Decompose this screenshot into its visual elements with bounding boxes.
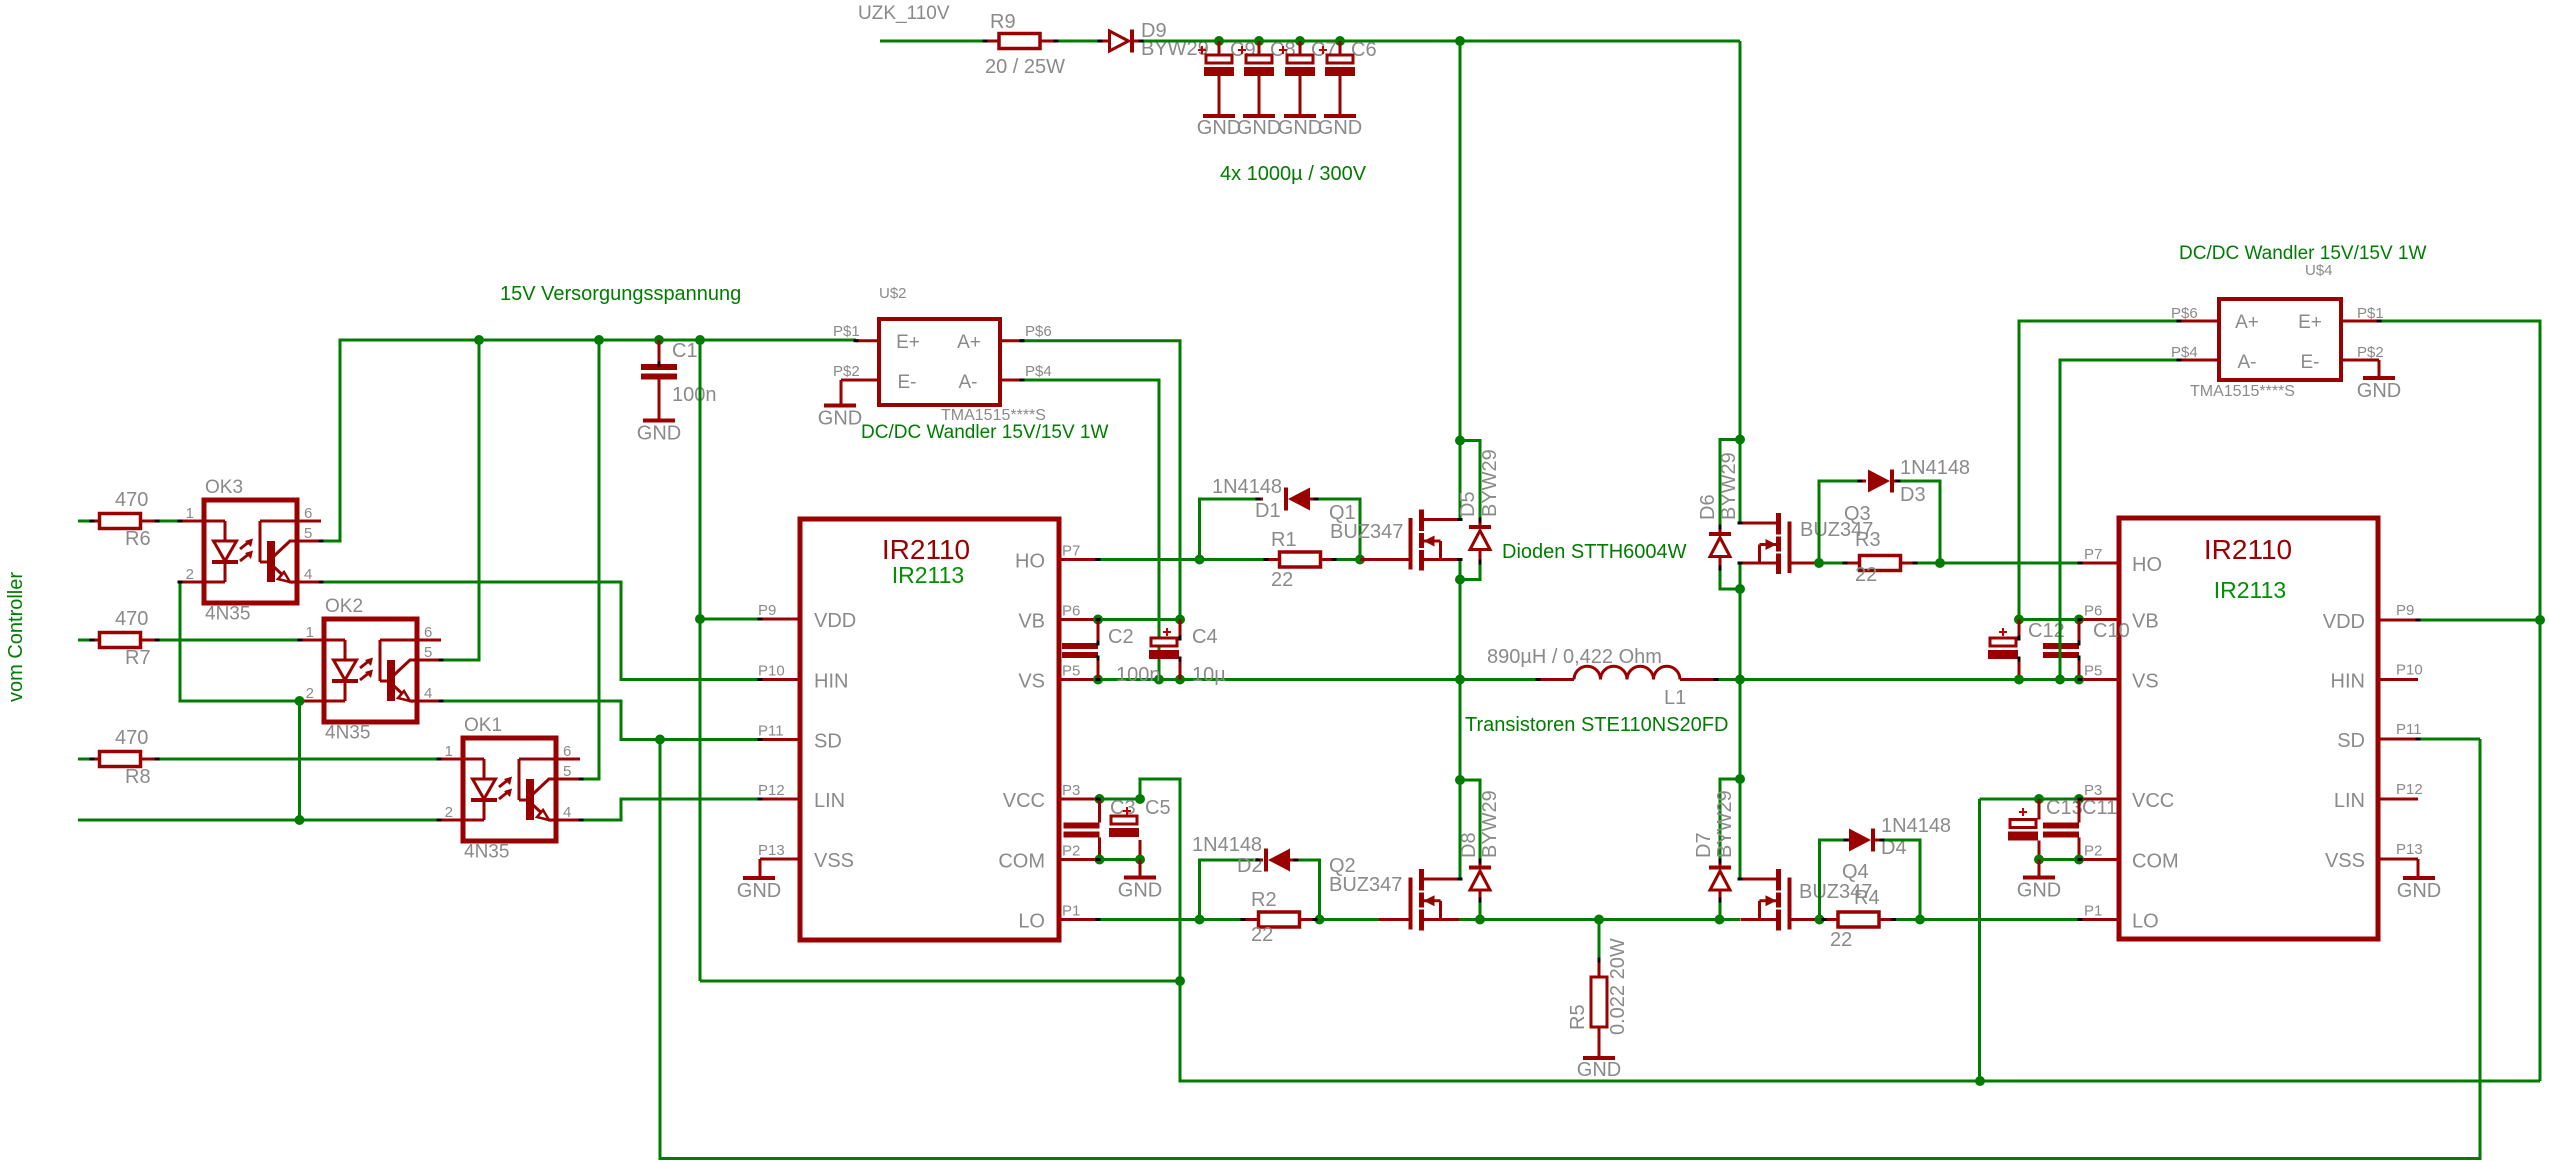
wire top rail into left leg — [1459, 41, 1462, 520]
wire D2 to gate node — [1296, 860, 1320, 920]
svg-text:C10: C10 — [2093, 620, 2130, 642]
wire L1 to right leg — [1716, 678, 2080, 681]
wire D3 bypass — [1819, 481, 1860, 563]
svg-text:P11: P11 — [2396, 721, 2422, 738]
svg-text:2: 2 — [186, 566, 194, 583]
pin VDD stub (left IC) — [760, 618, 800, 621]
svg-text:22: 22 — [1271, 569, 1293, 591]
svg-text:vom Controller: vom Controller — [5, 572, 27, 702]
junction cap C9 top — [1214, 36, 1224, 46]
pin HO stub (right IC) — [2080, 562, 2119, 565]
pin LO stub (right IC) — [2080, 918, 2119, 921]
junction cap C7 top — [1295, 36, 1305, 46]
svg-text:P$1: P$1 — [833, 323, 860, 340]
pin connection ticks — [758, 618, 763, 621]
junction source rail / R5 — [1594, 915, 1604, 925]
diode D7 BYW29 — [1719, 861, 1722, 868]
wire HO to R1 — [1098, 558, 1266, 561]
svg-text:D1: D1 — [1255, 500, 1281, 522]
svg-text:P5: P5 — [1062, 663, 1080, 680]
wire R6 to OK3 pin1 — [157, 520, 180, 523]
DC/DC converter U$4 box — [2219, 299, 2341, 380]
junction COM / C13 — [2034, 855, 2044, 865]
junction VCC / C13 — [2034, 794, 2044, 804]
pin VSS stub (left IC) — [760, 858, 800, 861]
transistor Q4 BUZ347 — [1788, 878, 1792, 930]
wire VDD to 15V drop — [700, 618, 760, 621]
wire U$4 P$4 to right VS — [2060, 360, 2179, 680]
capacitor C8 (1000u/300V) — [1258, 41, 1261, 55]
wire R7 to OK2 pin1 — [157, 639, 300, 642]
svg-text:BYW29: BYW29 — [1718, 452, 1740, 520]
ground GND of C1 — [643, 419, 675, 423]
svg-text:D7: D7 — [1693, 832, 1715, 858]
svg-text:P7: P7 — [1062, 543, 1080, 560]
junction right leg / D7 top — [1735, 774, 1745, 784]
pin VCC stub (left IC) — [1059, 798, 1098, 801]
svg-text:D3: D3 — [1900, 484, 1926, 506]
resistor R4 22 — [1820, 918, 1825, 921]
wire gate lead Q2 — [1379, 918, 1410, 921]
svg-text:VB: VB — [1018, 611, 1045, 633]
junction COM / C5 — [1135, 855, 1145, 865]
svg-text:22: 22 — [1251, 924, 1273, 946]
diode D3 1N4148 — [1860, 480, 1866, 483]
svg-text:6: 6 — [304, 505, 312, 522]
svg-text:DC/DC Wandler 15V/15V 1W: DC/DC Wandler 15V/15V 1W — [861, 422, 1109, 443]
svg-text:E-: E- — [2301, 352, 2320, 373]
junction gate node Q4 — [1815, 915, 1825, 925]
ground GND of C7 — [1284, 114, 1316, 118]
junction OK2 pin2 — [295, 696, 305, 706]
pin P$2 stub and ground — [841, 379, 879, 382]
svg-text:R1: R1 — [1271, 529, 1297, 551]
capacitor C1 100n — [658, 340, 661, 364]
svg-text:1: 1 — [186, 505, 194, 522]
capacitor C7 (1000u/300V) — [1299, 41, 1302, 55]
svg-text:P12: P12 — [2396, 781, 2423, 798]
svg-text:1N4148: 1N4148 — [1212, 476, 1282, 498]
pin P$4 stub — [1000, 379, 1022, 382]
wire D8 top link — [1460, 780, 1480, 861]
resistor R2 22 — [1243, 918, 1257, 921]
svg-text:HIN: HIN — [2331, 671, 2365, 693]
diode D9 — [1100, 40, 1108, 43]
svg-text:GND: GND — [1237, 117, 1281, 139]
capacitor C3 100n — [1098, 799, 1101, 823]
wire controller return line — [78, 819, 439, 822]
capacitor C2 100n — [1097, 620, 1100, 644]
svg-text:P2: P2 — [1062, 843, 1080, 860]
svg-text:C2: C2 — [1108, 626, 1134, 648]
junction OK1 pin2 — [295, 815, 305, 825]
junction 15V rail / VDD drop — [695, 335, 705, 345]
svg-text:IR2113: IR2113 — [2214, 577, 2286, 603]
svg-text:Q4: Q4 — [1842, 861, 1869, 883]
junction VB / C10 — [2074, 615, 2084, 625]
pin VS stub (right IC) — [2080, 678, 2119, 681]
svg-text:E-: E- — [898, 372, 917, 393]
svg-text:A-: A- — [2238, 352, 2257, 373]
svg-text:P13: P13 — [758, 842, 785, 859]
svg-text:GND: GND — [1197, 117, 1241, 139]
svg-text:1: 1 — [445, 743, 453, 760]
svg-text:P7: P7 — [2084, 546, 2102, 563]
pin HIN stub (right IC) — [2378, 678, 2418, 681]
pin VCC stub (right IC) — [2080, 798, 2119, 801]
junction VB / C2 — [1093, 615, 1103, 625]
wire VDD right to riser — [2418, 619, 2540, 622]
wire VS to Q2 drain — [1459, 680, 1462, 880]
ground GND of U$2 P$2 — [824, 404, 856, 408]
wire OK1 pin4 to LIN — [581, 799, 760, 820]
junction SD net bottom drop — [655, 735, 665, 745]
svg-text:5: 5 — [424, 644, 432, 661]
junction VS / P$4 drop — [1154, 675, 1164, 685]
junction right riser / 15V link — [1975, 1076, 1985, 1086]
svg-text:R6: R6 — [125, 528, 151, 550]
wire SD right drop — [2418, 738, 2480, 741]
svg-text:OK2: OK2 — [325, 596, 363, 617]
pin U$4 P$2 stub and ground — [2341, 359, 2379, 362]
svg-text:HIN: HIN — [814, 671, 848, 693]
pin SD stub (left IC) — [760, 738, 800, 741]
wire R9 to D9 — [1056, 40, 1100, 43]
wire D2 bypass — [1200, 860, 1259, 920]
capacitor C6 (1000u/300V) — [1339, 41, 1342, 55]
svg-text:VDD: VDD — [2323, 611, 2365, 633]
svg-text:P9: P9 — [758, 602, 776, 619]
wire D4 to LO node — [1882, 840, 1920, 920]
junction VCC / C3 — [1095, 794, 1105, 804]
svg-text:U$4: U$4 — [2305, 262, 2333, 279]
junction gate node Q3 — [1814, 558, 1824, 568]
svg-text:LO: LO — [2132, 911, 2159, 933]
svg-text:P13: P13 — [2396, 841, 2423, 858]
wire VB row left — [1098, 618, 1180, 621]
diode D1 1N4148 — [1258, 498, 1263, 501]
wire R4 to LO stub — [1894, 918, 2081, 921]
svg-text:0.022 20W: 0.022 20W — [1607, 938, 1629, 1035]
junction VS / C12 — [2014, 675, 2024, 685]
optocoupler OK3 4N35 — [204, 500, 297, 603]
resistor R3 22 — [1819, 562, 1845, 565]
wire D1 bypass — [1200, 499, 1259, 560]
pin VSS ground lead — [759, 859, 762, 878]
junction Q3 source node — [1735, 584, 1745, 594]
wire D8 bottom link — [1479, 900, 1482, 920]
svg-text:P$6: P$6 — [1025, 323, 1052, 340]
wire VCC row right — [1980, 798, 2081, 801]
svg-text:C13: C13 — [2046, 797, 2083, 819]
junction VDD left — [695, 614, 705, 624]
svg-text:HO: HO — [2132, 554, 2162, 576]
resistor R9 — [985, 40, 999, 43]
svg-text:SD: SD — [814, 731, 842, 753]
svg-text:IR2110: IR2110 — [882, 534, 970, 565]
svg-text:GND: GND — [737, 880, 781, 902]
junction gate node Q2 — [1315, 915, 1325, 925]
svg-text:GND: GND — [1577, 1059, 1621, 1081]
svg-text:UZK_110V: UZK_110V — [858, 3, 950, 24]
wire VS line left — [1098, 678, 1460, 681]
svg-text:LIN: LIN — [2334, 790, 2365, 812]
svg-text:P12: P12 — [758, 782, 785, 799]
wire left 15V bottom rail — [700, 980, 1180, 983]
svg-text:R5: R5 — [1567, 1004, 1589, 1030]
wire 15V rail to U$2 P$1 — [856, 339, 879, 342]
svg-text:470: 470 — [115, 608, 148, 630]
wire Q1 source to VS — [1459, 560, 1462, 680]
wire D5 top link — [1460, 441, 1480, 521]
wire gate lead Q1 — [1360, 558, 1410, 561]
junction LO / D2 riser — [1195, 915, 1205, 925]
svg-text:VCC: VCC — [1003, 790, 1045, 812]
ground GND of C9 — [1203, 114, 1235, 118]
wire D4 bypass — [1820, 840, 1847, 920]
svg-text:BYW29: BYW29 — [1479, 790, 1501, 858]
svg-text:P$6: P$6 — [2171, 305, 2198, 322]
wire VS to Q4 drain — [1739, 680, 1742, 880]
svg-text:HO: HO — [1015, 551, 1045, 573]
svg-text:P$1: P$1 — [2357, 305, 2384, 322]
junction VS / C2 — [1093, 675, 1103, 685]
junction VCC / C5 — [1135, 794, 1145, 804]
wire left VCC riser to bottom rail — [1140, 779, 1180, 981]
svg-text:P10: P10 — [758, 663, 785, 680]
svg-text:BYW29: BYW29 — [1479, 449, 1501, 517]
ground GND of U$4 P$2 — [2363, 376, 2395, 380]
pin U$4 P$1 stub — [2341, 320, 2379, 323]
svg-text:P$4: P$4 — [1025, 363, 1052, 380]
svg-text:Dioden STTH6004W: Dioden STTH6004W — [1502, 541, 1687, 563]
svg-text:OK1: OK1 — [464, 715, 502, 736]
resistor R6 470 — [78, 520, 92, 523]
pin P$6 stub — [1000, 339, 1022, 342]
svg-text:4: 4 — [304, 566, 312, 583]
wire R2 to gate junction — [1315, 918, 1379, 921]
wire COM row right — [2039, 858, 2080, 861]
svg-text:E+: E+ — [2298, 312, 2322, 333]
resistor R8 470 — [78, 758, 92, 761]
wire OK1 pin5 riser — [581, 340, 599, 779]
svg-text:890µH / 0,422 Ohm: 890µH / 0,422 Ohm — [1487, 646, 1662, 668]
junction right leg VS — [1735, 675, 1745, 685]
svg-text:COM: COM — [998, 851, 1045, 873]
svg-text:P2: P2 — [2084, 843, 2102, 860]
junction 15V rail / OK2 pin5 riser — [474, 335, 484, 345]
wire R8 to OK1 pin1 — [157, 758, 439, 761]
optocoupler OK2 4N35 — [324, 619, 417, 722]
junction VS / C4 — [1175, 675, 1185, 685]
pin SD stub (right IC) — [2378, 738, 2418, 741]
diode D8 BYW29 — [1479, 861, 1482, 868]
resistor R1 22 — [1266, 558, 1280, 561]
svg-text:1N4148: 1N4148 — [1900, 457, 1970, 479]
ground GND of R5 — [1583, 1056, 1615, 1060]
svg-text:OK3: OK3 — [205, 477, 243, 498]
junction VB / C12 — [2014, 615, 2024, 625]
junction cap C6 top — [1335, 36, 1345, 46]
svg-text:GND: GND — [1318, 117, 1362, 139]
junction R3 / HO wire — [1935, 558, 1945, 568]
junction right leg / D6 top — [1735, 435, 1745, 445]
wire source rail bottom — [1459, 918, 1740, 921]
svg-text:100n: 100n — [672, 384, 717, 406]
svg-text:COM: COM — [2132, 851, 2179, 873]
wire COM row left — [1098, 858, 1140, 861]
svg-text:U$2: U$2 — [879, 285, 907, 302]
wire D6 bottom link — [1720, 568, 1740, 589]
ground GND of C8 — [1243, 114, 1275, 118]
svg-text:DC/DC Wandler 15V/15V 1W: DC/DC Wandler 15V/15V 1W — [2179, 243, 2427, 264]
ground GND at left VSS — [743, 876, 775, 880]
wire VCC row left — [1098, 798, 1140, 801]
svg-text:P6: P6 — [2084, 603, 2102, 620]
svg-text:R4: R4 — [1854, 887, 1880, 909]
wire D3 to HO node — [1898, 481, 1940, 563]
svg-text:GND: GND — [1278, 117, 1322, 139]
junction left leg / D8 top — [1455, 775, 1465, 785]
pin LIN stub (left IC) — [760, 798, 800, 801]
svg-text:VSS: VSS — [2325, 850, 2365, 872]
wire U$2 P$6 to VB junction — [1022, 341, 1180, 620]
svg-text:P1: P1 — [2084, 903, 2102, 920]
wire VS to L1 — [1460, 678, 1538, 681]
svg-text:GND: GND — [637, 423, 681, 445]
pin VDD stub (right IC) — [2378, 619, 2418, 622]
wire VB row right — [2019, 618, 2080, 621]
svg-text:GND: GND — [2017, 880, 2061, 902]
svg-text:4N35: 4N35 — [205, 604, 250, 625]
svg-text:C1: C1 — [672, 340, 698, 362]
svg-text:D8: D8 — [1458, 832, 1480, 858]
svg-text:BYW29: BYW29 — [1714, 790, 1736, 858]
wire D7 top link — [1720, 779, 1740, 861]
capacitor C5 — [1123, 807, 1131, 815]
wire U$4 P$1 to VDD riser — [2379, 321, 2540, 1081]
svg-text:A-: A- — [959, 372, 978, 393]
wire OK3 pin2 chain — [180, 582, 299, 701]
svg-text:VB: VB — [2132, 611, 2159, 633]
resistor R5 0.022 20W — [1598, 920, 1601, 961]
svg-text:VS: VS — [1018, 671, 1045, 693]
svg-text:A+: A+ — [957, 332, 981, 353]
junction left leg / D5 top — [1455, 436, 1465, 446]
pin VSS stub (right IC) — [2378, 858, 2418, 861]
svg-text:4: 4 — [424, 685, 432, 702]
junction left leg VS — [1455, 675, 1465, 685]
pin VB stub (right IC) — [2080, 618, 2119, 621]
svg-text:VCC: VCC — [2132, 790, 2174, 812]
diode D4 1N4148 — [1846, 839, 1849, 842]
svg-text:R2: R2 — [1251, 889, 1277, 911]
junction gate node Q1 — [1355, 555, 1365, 565]
transistor Q2 BUZ347 — [1409, 878, 1413, 930]
wire pin2 chain down — [298, 701, 301, 820]
svg-text:P3: P3 — [1062, 782, 1080, 799]
junction 15V rail / C1 — [654, 335, 664, 345]
svg-text:P9: P9 — [2396, 602, 2414, 619]
svg-text:D6: D6 — [1697, 494, 1719, 520]
junction COM / C11 — [2074, 855, 2084, 865]
junction top rail to left bridge leg — [1455, 36, 1465, 46]
svg-text:C6: C6 — [1351, 39, 1377, 61]
svg-text:1N4148: 1N4148 — [1192, 834, 1262, 856]
svg-text:R9: R9 — [990, 11, 1016, 33]
svg-text:4: 4 — [563, 804, 571, 821]
svg-text:C4: C4 — [1192, 626, 1218, 648]
svg-text:470: 470 — [115, 727, 148, 749]
wire U$2 P$4 to VS — [1022, 380, 1159, 680]
svg-text:4N35: 4N35 — [464, 842, 509, 863]
svg-text:100n: 100n — [1116, 664, 1161, 686]
wire SD net long bottom run — [660, 739, 2480, 1159]
junction 15V rail / OK1 pin5 riser — [594, 335, 604, 345]
svg-text:P$2: P$2 — [833, 363, 860, 380]
capacitor C11 — [2078, 799, 2081, 823]
transistor Q1 BUZ347 — [1409, 518, 1413, 570]
pin LO stub (left IC) — [1059, 918, 1098, 921]
svg-text:4x 1000µ / 300V: 4x 1000µ / 300V — [1220, 163, 1367, 185]
svg-text:15V Versorgungsspannung: 15V Versorgungsspannung — [500, 283, 741, 305]
svg-text:4N35: 4N35 — [325, 723, 370, 744]
svg-text:C11: C11 — [2082, 797, 2117, 819]
svg-text:BUZ347: BUZ347 — [1330, 521, 1403, 543]
svg-text:6: 6 — [563, 743, 571, 760]
wire D7 bottom link — [1719, 900, 1722, 920]
IC U1 IR2110 (left) box — [800, 519, 1059, 940]
wire gate lead Q4 — [1790, 918, 1820, 921]
ground GND at right VSS — [2403, 876, 2435, 880]
pin COM stub (left IC) — [1059, 858, 1098, 861]
junction COM / C3 — [1095, 855, 1105, 865]
wire gate lead Q3 — [1790, 562, 1820, 565]
junction cap C8 top — [1254, 36, 1264, 46]
pin U$4 P$6 stub — [2179, 320, 2219, 323]
junction D8 / source rail — [1475, 915, 1485, 925]
svg-text:6: 6 — [424, 624, 432, 641]
svg-text:E+: E+ — [896, 332, 920, 353]
junction VB / C4 — [1175, 615, 1185, 625]
wire right HO line — [1915, 562, 2080, 565]
wire 15V rail — [321, 340, 856, 541]
wire Q3 source to VS — [1739, 563, 1742, 680]
svg-text:A+: A+ — [2235, 312, 2259, 333]
pin VS stub (left IC) — [1059, 678, 1098, 681]
svg-text:P$4: P$4 — [2171, 344, 2198, 361]
wire D6 top link — [1720, 440, 1740, 528]
svg-text:D2: D2 — [1237, 855, 1263, 877]
svg-text:20 / 25W: 20 / 25W — [985, 56, 1065, 78]
ground GND at right COM — [2038, 860, 2041, 878]
svg-text:VDD: VDD — [814, 610, 856, 632]
svg-text:2: 2 — [445, 804, 453, 821]
transistor Q3 BUZ347 — [1788, 522, 1792, 574]
svg-text:BUZ347: BUZ347 — [1329, 874, 1402, 896]
capacitor C13 — [2038, 799, 2041, 820]
capacitor C4 10u — [1179, 620, 1182, 639]
pin HIN stub (left IC) — [760, 678, 800, 681]
svg-text:VS: VS — [2132, 671, 2159, 693]
junction R4 / LO wire — [1915, 915, 1925, 925]
optocoupler OK1 4N35 — [463, 738, 556, 841]
wire R1 to gate junction — [1334, 558, 1360, 561]
wire D1 to gate node — [1316, 499, 1360, 560]
inductor L1 890uH — [1538, 678, 1574, 681]
wire UZK_110V rail left segment — [880, 40, 985, 43]
svg-text:P5: P5 — [2084, 663, 2102, 680]
